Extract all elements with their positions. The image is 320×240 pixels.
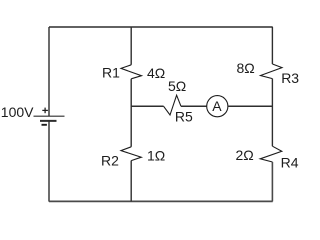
ammeter A: [207, 96, 228, 117]
battery V1 positive plate: [34, 115, 65, 117]
svg-text:R1: R1: [102, 64, 120, 80]
battery plus sign: [42, 108, 48, 114]
wire right mid: [271, 79, 273, 147]
resistor R3: [261, 64, 283, 79]
wire top: [49, 26, 273, 28]
svg-text:4Ω: 4Ω: [147, 65, 165, 81]
resistor R2: [121, 147, 141, 161]
resistor R5: [164, 95, 181, 115]
svg-text:1Ω: 1Ω: [147, 148, 165, 164]
wire middle branch top: [130, 27, 132, 65]
wire right upper: [271, 27, 273, 64]
wire left lower: [48, 121, 50, 202]
battery minus sign: [42, 124, 47, 126]
svg-text:A: A: [212, 98, 222, 114]
svg-text:R4: R4: [281, 155, 299, 171]
wire ammeter to right: [228, 105, 273, 107]
svg-text:2Ω: 2Ω: [236, 147, 254, 163]
svg-text:R5: R5: [175, 109, 193, 125]
wire bottom: [49, 200, 273, 202]
battery V1 negative plate: [40, 120, 57, 122]
wire right lower: [271, 162, 273, 201]
svg-text:R3: R3: [281, 70, 299, 86]
svg-text:5Ω: 5Ω: [168, 78, 186, 94]
resistor R4: [260, 146, 282, 162]
svg-text:100V: 100V: [1, 104, 34, 120]
wire left upper: [48, 27, 50, 116]
wire middle horizontal left: [131, 105, 163, 107]
wire middle branch bottom: [130, 161, 132, 202]
wire middle to ammeter: [181, 105, 207, 107]
svg-text:R2: R2: [101, 152, 119, 168]
resistor R1: [121, 65, 142, 79]
wire middle branch mid: [130, 79, 132, 147]
svg-text:8Ω: 8Ω: [237, 60, 255, 76]
